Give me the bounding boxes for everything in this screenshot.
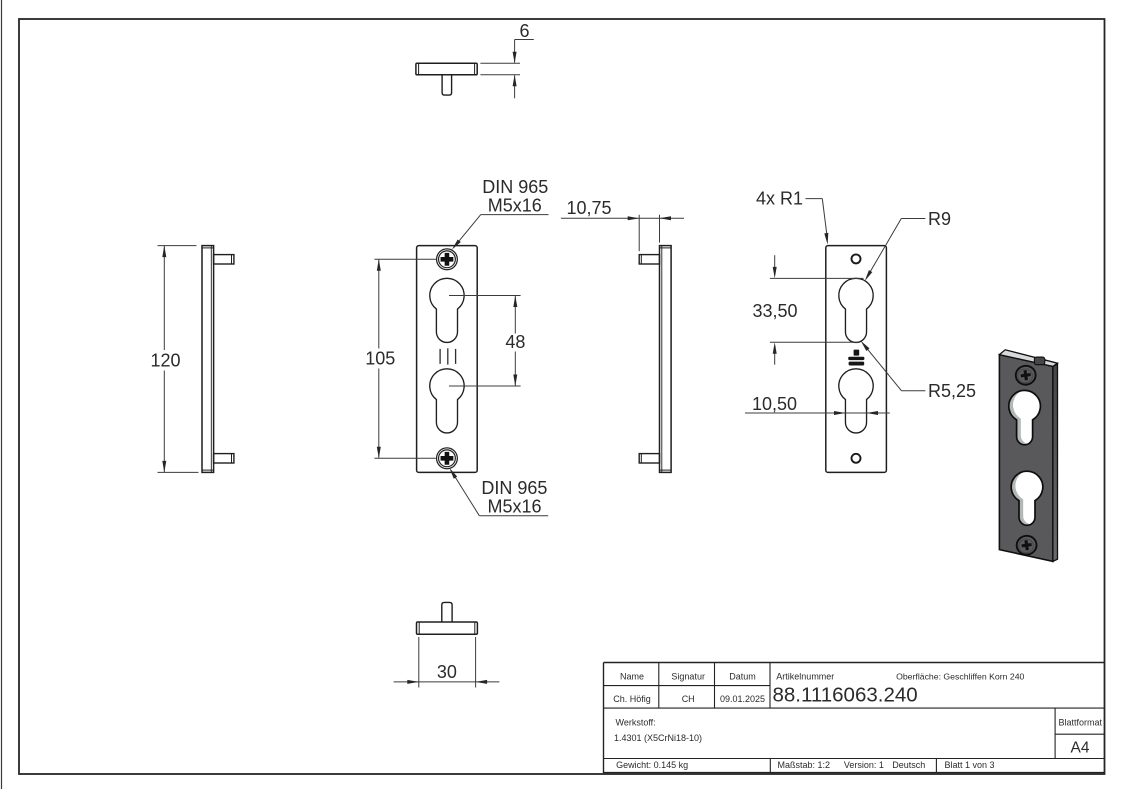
front view: top screw DIN 965 M5x16 — [437, 249, 458, 270]
dim 105: dim line lower segment — [378, 369, 380, 459]
dim 30: extension line left — [418, 637, 420, 688]
3d view: lower keyhole cutout — [1011, 470, 1047, 525]
bottom view: left end-cap line — [418, 622, 420, 634]
dim 6: lower dim line — [514, 75, 516, 98]
title block: v-line deutsch/blatt — [935, 759, 937, 773]
dim 120: dim line lower segment — [163, 371, 165, 473]
right side view: lower stud — [639, 454, 659, 463]
svg-text:33,50: 33,50 — [752, 301, 797, 321]
svg-text:Signatur: Signatur — [671, 672, 705, 682]
title block: row line under werkstoff row — [604, 758, 1105, 760]
dim 120: extension line bottom — [158, 471, 199, 473]
svg-text:A4: A4 — [1071, 740, 1090, 757]
right side view: chamfer line left — [661, 246, 663, 473]
svg-text:10,75: 10,75 — [566, 198, 611, 218]
right side view: plate outline — [660, 246, 672, 473]
svg-text:Ch. Höfig: Ch. Höfig — [613, 694, 651, 704]
svg-text:120: 120 — [150, 351, 180, 371]
right side view: chamfer line top — [660, 247, 672, 249]
3d pictorial view of plate — [999, 350, 1057, 562]
dim 120: arrow bottom — [162, 461, 166, 473]
3d view: top screw — [1015, 365, 1037, 386]
svg-text:DIN 965: DIN 965 — [482, 177, 548, 197]
svg-text:DIN 965: DIN 965 — [481, 478, 547, 498]
title block: top edge — [604, 662, 1105, 664]
svg-text:48: 48 — [505, 332, 525, 352]
title block: row line under header — [604, 685, 771, 687]
dim 48: arrow bottom — [513, 375, 517, 387]
dim 6: shoulder line — [515, 39, 534, 41]
svg-text:Name: Name — [620, 672, 644, 682]
top view: left end-cap line — [418, 63, 420, 75]
dim 6: lower arrow — [513, 75, 517, 87]
title block: blattformat divider line — [1055, 733, 1104, 735]
left side view: chamfer line top — [202, 247, 214, 249]
front view: grinding mark 3 — [455, 349, 457, 364]
svg-text:4x R1: 4x R1 — [756, 189, 803, 209]
dim 6: upper arrow — [513, 52, 517, 64]
leader bottom DIN 965: diagonal — [451, 471, 479, 516]
svg-text:M5x16: M5x16 — [487, 497, 541, 517]
dim 6: extension line top — [480, 62, 520, 64]
dim 10,50: dim line — [745, 412, 890, 414]
dim 33,50: lower arrow — [773, 342, 777, 354]
top view: plate outline — [416, 63, 477, 75]
left side view: upper stud end-cap — [231, 255, 233, 264]
leader 4x R1: arrow — [824, 233, 828, 245]
title block: row line under name row — [604, 707, 1105, 709]
svg-text:R9: R9 — [928, 209, 951, 229]
bottom view: plate outline — [417, 622, 478, 634]
title block: outer left edge — [603, 663, 605, 774]
svg-text:Maßstab: 1:2: Maßstab: 1:2 — [778, 760, 831, 770]
3d view: bottom screw — [1015, 535, 1037, 556]
right front view: top hole — [852, 254, 861, 263]
dim 33,50: upper arrow — [773, 267, 777, 279]
svg-text:CH: CH — [682, 694, 695, 704]
front view: upper keyhole slot — [430, 278, 464, 342]
front view: grinding mark 1 — [439, 349, 441, 364]
leader R9: diagonal — [866, 219, 901, 279]
title block: v-line blattformat cell — [1054, 708, 1056, 758]
dim 33,50: lower arrow tail — [774, 354, 776, 365]
svg-text:30: 30 — [437, 662, 457, 682]
dim 6: upper dim line — [514, 40, 516, 63]
dim 10,75: left arrow — [628, 216, 640, 220]
dim 120: extension line top — [158, 245, 197, 247]
dim 48: extension line bottom — [449, 385, 521, 387]
right front view: stamped logo mark — [848, 350, 864, 366]
left side view: plate outline — [202, 246, 214, 473]
title block: bottom edge — [604, 772, 1105, 774]
3d view: upper keyhole cutout — [1009, 389, 1045, 445]
dim 48: dim line lower segment — [514, 352, 516, 387]
svg-text:Artikelnummer: Artikelnummer — [776, 672, 834, 682]
dim 10,50: left arrow — [834, 411, 846, 415]
dim 33,50: extension line top — [770, 277, 864, 279]
leader top DIN 965: arrow — [452, 240, 461, 250]
svg-text:Blatt 1 von 3: Blatt 1 von 3 — [945, 760, 995, 770]
front view: lower keyhole slot — [430, 369, 464, 433]
right front view: plate outline — [826, 246, 887, 473]
leader R9: shoulder — [901, 218, 925, 220]
left side view: lower stud — [214, 454, 234, 463]
svg-text:Datum: Datum — [729, 672, 756, 682]
leader R5,25: shoulder — [902, 390, 926, 392]
dim 10,75: extension line left — [638, 215, 640, 251]
svg-text:10,50: 10,50 — [752, 394, 797, 414]
right front view: bottom hole — [852, 454, 861, 463]
front view: bottom screw DIN 965 M5x16 — [437, 448, 458, 469]
leader bottom DIN 965: shelf line — [479, 515, 548, 517]
dim 48: dim line upper segment — [514, 296, 516, 334]
dim 6: extension line bottom — [480, 74, 520, 76]
svg-text:Gewicht: 0.145 kg: Gewicht: 0.145 kg — [616, 760, 688, 770]
sheet edge (left paper border) — [1, 0, 3, 789]
dim 105: arrow bottom — [377, 447, 381, 459]
left side view: lower stud end-cap — [231, 454, 233, 463]
svg-text:Version: 1: Version: 1 — [844, 760, 884, 770]
3d view: top face — [999, 350, 1057, 367]
dim 10,75: dim line — [561, 217, 684, 219]
leader 4x R1: diagonal — [822, 199, 827, 235]
dim 30: dim line — [394, 681, 500, 683]
leader R5,25: diagonal — [863, 343, 902, 390]
dim 48: extension line top — [449, 295, 521, 297]
dim 30: extension line right — [475, 637, 477, 688]
dim 120: arrow top — [162, 246, 166, 258]
dim 10,75: right arrow — [660, 216, 672, 220]
svg-text:1.4301 (X5CrNi18-10): 1.4301 (X5CrNi18-10) — [614, 733, 702, 743]
3d view: stud nub on top edge — [1034, 357, 1044, 365]
dim 105: arrow top — [377, 259, 381, 271]
dim 10,50: right arrow — [867, 411, 879, 415]
svg-text:6: 6 — [519, 21, 529, 41]
dim 33,50: extension line bottom — [770, 341, 860, 343]
front view: grinding mark 2 — [447, 348, 449, 364]
dim 105: extension line top — [374, 258, 436, 260]
front view: plate outline — [417, 246, 478, 473]
top view: right end-cap line — [474, 63, 476, 75]
dim 30: right arrow — [476, 680, 488, 684]
top view: stud (threaded pin) — [442, 75, 452, 95]
right side view: chamfer line bottom — [660, 469, 672, 471]
svg-text:R5,25: R5,25 — [928, 381, 976, 401]
svg-text:M5x16: M5x16 — [488, 196, 542, 216]
leader 4x R1: shoulder — [806, 198, 823, 200]
left side view: upper stud — [214, 255, 234, 264]
svg-text:105: 105 — [365, 349, 395, 369]
leader R5,25: arrow — [861, 341, 870, 351]
svg-text:Deutsch: Deutsch — [892, 760, 925, 770]
svg-text:Oberfläche: Geschliffen Korn: Oberfläche: Geschliffen Korn 240 — [896, 672, 1024, 682]
svg-text:Blattformat: Blattformat — [1059, 718, 1103, 728]
title block — [604, 663, 1105, 774]
left side view: chamfer line bottom — [202, 469, 214, 471]
leader top DIN 965: diagonal — [454, 215, 481, 248]
bottom view: right end-cap line — [474, 622, 476, 634]
title block: v-line datum/artikelnummer — [769, 663, 771, 709]
dim 30: left arrow — [407, 680, 419, 684]
dim 105: extension line bottom — [374, 457, 436, 459]
svg-text:88.1116063.240: 88.1116063.240 — [773, 684, 918, 707]
title block: v-line name/signatur — [658, 663, 660, 709]
leader R9: arrow — [865, 270, 873, 281]
dim 105: dim line upper segment — [378, 259, 380, 348]
dim 33,50: upper arrow tail — [774, 255, 776, 267]
right front view: upper keyhole slot — [839, 278, 873, 342]
dim 120: dim line upper segment — [163, 246, 165, 350]
dim 48: arrow top — [513, 296, 517, 308]
bottom view: stud (threaded pin) — [442, 602, 452, 622]
svg-text:Werkstoff:: Werkstoff: — [616, 718, 656, 728]
title block: v-line signatur/datum — [714, 663, 716, 709]
svg-text:09.01.2025: 09.01.2025 — [720, 694, 765, 704]
3d view: front face — [999, 355, 1053, 562]
leader bottom DIN 965: arrow — [449, 468, 457, 479]
leader top DIN 965: shelf line — [481, 214, 549, 216]
left side view: chamfer line right — [210, 246, 212, 473]
right side view: lower stud end-cap — [640, 454, 642, 463]
title block: v-line gewicht/massstab — [769, 759, 771, 773]
right front view: lower keyhole slot — [839, 369, 873, 433]
right side view: upper stud end-cap — [640, 255, 642, 264]
dim 10,75: extension line right — [659, 215, 661, 243]
right side view: upper stud — [639, 255, 659, 264]
